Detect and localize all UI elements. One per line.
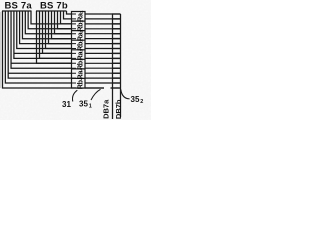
wire output line 15: [85, 82, 121, 84]
wire filler line k8: [14, 52, 72, 54]
wire filler line k12: [8, 72, 71, 74]
wire BS7a line 4: [11, 11, 71, 68]
wire output line 10: [85, 57, 121, 59]
bus BS7b top rail: [36, 10, 67, 12]
wire filler line k10: [11, 62, 71, 64]
wire BS7b line 5: [55, 11, 72, 34]
wire ladder rung overdraw: [111, 14, 121, 88]
wire output line 9: [85, 52, 121, 54]
wire BS7b line 4: [58, 11, 72, 29]
wire output line 11: [85, 62, 121, 64]
resistor labels Ra1..Rb4 (rotated): [75, 10, 84, 89]
wire data bus DB7b vertical: [120, 14, 122, 117]
wire output line 12: [85, 67, 121, 69]
wire BS7b line 1: [67, 11, 72, 14]
wire output line 14: [85, 77, 121, 79]
wire BS7b line 9: [43, 11, 72, 53]
bus BS7a top rail: [2, 10, 32, 12]
wire BS7a line 11: [31, 11, 72, 24]
wire BS7a line 7: [20, 11, 72, 44]
wire BS7b line 10: [40, 11, 72, 58]
wire BS7a line 10: [28, 11, 71, 29]
wire output line 3: [85, 23, 121, 25]
wire BS7b line 11: [37, 11, 72, 63]
wire output line 1: [85, 13, 121, 15]
wire data bus DB7a vertical: [112, 14, 114, 119]
scan artifact left edge: [0, 12, 2, 88]
wire output line 7: [85, 43, 121, 45]
scan noise overlay: [0, 0, 1, 1]
wire BS7a line 1: [3, 11, 105, 88]
wire output line 5: [85, 33, 121, 35]
wire stubs entering resistor block: [72, 14, 77, 88]
resistor block 31 box: [72, 12, 86, 89]
wire BS7a line 5: [14, 11, 72, 58]
wire output line 4: [85, 28, 121, 30]
leader line for 35_2: [121, 90, 130, 99]
wire BS7b line 8: [46, 11, 72, 49]
wire BS7b line 6: [52, 11, 72, 39]
wire output line 2: [85, 18, 121, 20]
wire 35_1 data line: [85, 87, 104, 89]
wire output line 6: [85, 38, 121, 40]
wire BS7a line 3: [8, 11, 71, 78]
wire BS7b line 7: [49, 11, 72, 44]
leader line for 31: [73, 90, 78, 101]
wire BS7a line 2: [5, 11, 71, 83]
leader line for 35_1: [91, 89, 101, 100]
wire BS7a line 8: [22, 11, 71, 39]
wire BS7a line 6: [17, 11, 72, 49]
wire output line 8: [85, 48, 121, 50]
wire BS7a line 9: [25, 11, 71, 34]
wire output line 13: [85, 72, 121, 74]
wire ladder bottom rung: [111, 87, 121, 89]
wire BS7b line 3: [61, 11, 72, 24]
wire BS7b line 2: [64, 11, 72, 19]
